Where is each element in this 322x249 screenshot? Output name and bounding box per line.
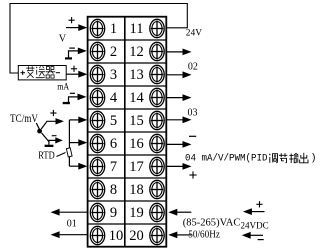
TC junction node [36,123,42,134]
svg-text:01: 01 [67,219,77,230]
output lead from terminal 12 [167,49,192,56]
svg-text:9: 9 [110,205,117,221]
svg-text:mA: mA [57,83,69,93]
terminal 10 screw [90,226,104,244]
label - (transmitter minus) [56,72,60,74]
TC + lead toward bus [41,110,64,129]
terminal block outer frame [88,17,167,247]
char 变 [26,66,34,78]
terminal 20 screw [150,226,164,244]
char 出 [300,153,308,163]
lead - into terminal 2 [65,48,87,60]
sensor bus vertical wire [68,120,70,166]
output lead from terminal 15 [167,116,192,123]
label RTD with tick [38,150,65,161]
svg-text:(85-265)VAC: (85-265)VAC [183,217,241,229]
svg-text:): ) [311,153,317,165]
wire loop from terminal 11 to transmitter box (24V supply loop) [10,4,187,74]
arrow into terminal 5 [69,117,87,124]
terminal block center divider [124,17,126,247]
lead + into terminal 3 (from transmitter) [66,66,87,78]
output lead from terminal 14 [167,94,192,101]
svg-text:4: 4 [110,90,118,106]
svg-text:5: 5 [110,113,117,129]
AC supply lead into terminal 20 [168,232,191,239]
svg-text:10: 10 [109,228,124,244]
svg-text:6: 6 [110,136,117,152]
svg-text:7: 7 [110,159,117,175]
svg-text:14: 14 [129,90,144,106]
DC - lead [242,232,264,240]
terminal 12 screw [150,42,164,60]
transmitter U1 (变送器) box [18,66,66,80]
terminal 14 screw [150,88,164,106]
RTD element symbol on bus [66,148,72,157]
lead + into terminal 1 [66,17,87,31]
terminal 6 screw [90,134,104,152]
svg-text:50/60Hz: 50/60Hz [188,230,220,241]
svg-text:02: 02 [188,61,198,72]
terminal 4 screw [90,88,104,106]
output lead from terminal 13 [167,71,192,78]
label 04 mA/V/PWM (PID output) [185,152,317,164]
svg-text:3: 3 [110,67,117,83]
svg-text:2: 2 [110,44,117,60]
svg-text:24V: 24V [186,28,202,38]
svg-text:18: 18 [129,182,144,198]
svg-text:17: 17 [129,159,144,175]
char 调 [269,154,277,163]
svg-text:13: 13 [129,67,144,83]
svg-text:16: 16 [129,136,144,152]
output lead from terminal 9 [51,209,87,216]
terminal 17 screw [150,157,164,175]
terminal 5 screw [90,111,104,129]
lead - into terminal 4 [63,93,87,104]
svg-text:19: 19 [129,205,144,221]
svg-text:12: 12 [129,44,144,60]
AC supply lead into terminal 19 [168,209,191,216]
minus polarity for terminal 16 [189,135,196,137]
terminal 18 screw [150,180,164,198]
terminal 7 screw [90,157,104,175]
svg-text:1: 1 [110,21,117,37]
terminal 19 screw [150,203,164,221]
svg-text:8: 8 [110,182,117,198]
output lead from terminal 16 [167,141,192,148]
svg-text:TC/mV: TC/mV [10,113,39,125]
svg-text:04 mA/V/PWM(PID: 04 mA/V/PWM(PID [185,152,268,164]
arrow into terminal 7 [69,163,87,170]
TC - lead toward bus [42,133,63,147]
DC + lead [243,201,265,215]
terminal 11 screw [150,19,164,37]
svg-text:24VDC: 24VDC [241,221,269,231]
label + (transmitter plus) [21,71,26,76]
row dividers [88,40,166,224]
terminal 8 screw [90,180,104,198]
terminal 9 screw [90,203,104,221]
terminal 1 screw [90,19,104,37]
terminal 16 screw [150,134,164,152]
output lead from terminal 10 [51,231,87,238]
svg-text:03: 03 [188,108,198,119]
char 送 [36,66,45,77]
svg-text:RTD: RTD [38,150,55,161]
output lead from terminal 17 [167,163,197,179]
svg-text:V: V [59,34,67,45]
char 节 [279,153,287,163]
char 输 [289,153,298,163]
terminal 2 screw [90,42,104,60]
svg-text:11: 11 [130,21,144,37]
terminal 3 screw [90,65,104,83]
terminal 15 screw [150,111,164,129]
char 器 [46,67,56,79]
svg-text:15: 15 [129,113,144,129]
svg-text:20: 20 [129,228,144,244]
terminal 13 screw [150,65,164,83]
arrow into terminal 6 [69,139,87,146]
